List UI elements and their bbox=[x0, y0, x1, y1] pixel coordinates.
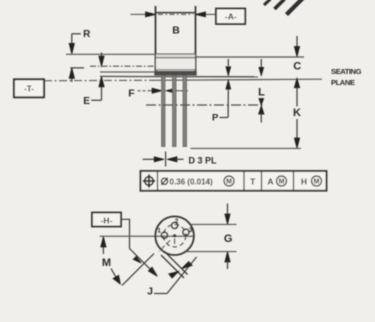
lead 3 circle bbox=[183, 229, 189, 235]
svg-text:L: L bbox=[258, 87, 265, 99]
can lower body tint bbox=[156, 58, 195, 69]
can body outline bbox=[155, 6, 196, 71]
svg-text:M: M bbox=[102, 257, 111, 269]
seating plane line right part bbox=[152, 79, 322, 80]
position symbol bbox=[143, 174, 155, 187]
svg-text:-T-: -T- bbox=[24, 85, 34, 94]
svg-text:SEATING: SEATING bbox=[331, 67, 362, 76]
dimension G bbox=[191, 223, 237, 225]
dimension J line bbox=[167, 257, 197, 294]
svg-text:0.36 (0.014): 0.36 (0.014) bbox=[170, 177, 213, 186]
ext line cap top bbox=[66, 53, 156, 55]
tab line 1 bbox=[161, 255, 184, 278]
J bracket bbox=[154, 293, 167, 295]
can base bar bbox=[155, 69, 196, 71]
diameter symbol bbox=[161, 178, 168, 185]
dash-dot line mid bbox=[90, 65, 156, 67]
lead 1 circle bbox=[161, 232, 167, 238]
svg-text:PLANE: PLANE bbox=[331, 78, 355, 87]
svg-text:1: 1 bbox=[157, 227, 161, 234]
M leader diagonal bbox=[111, 269, 116, 277]
svg-text:K: K bbox=[293, 107, 301, 119]
datum box -H- bbox=[92, 213, 121, 227]
svg-text:G: G bbox=[224, 233, 233, 245]
ext line can bottom bbox=[100, 71, 156, 73]
svg-text:C: C bbox=[293, 60, 301, 72]
svg-text:M: M bbox=[279, 179, 285, 186]
lead 2 bbox=[173, 76, 176, 147]
center mark bbox=[173, 234, 176, 237]
bottom view center line bbox=[100, 235, 194, 237]
svg-text:A: A bbox=[267, 176, 273, 186]
svg-text:F: F bbox=[128, 88, 135, 100]
svg-text:M: M bbox=[226, 179, 232, 186]
stray marks top right bbox=[264, 0, 303, 15]
svg-text:3: 3 bbox=[189, 227, 193, 234]
dimension L bbox=[260, 59, 262, 67]
dimension E bbox=[101, 53, 103, 60]
lead 2 circle bbox=[172, 222, 178, 228]
svg-text:P: P bbox=[212, 112, 219, 123]
svg-text:-A-: -A- bbox=[225, 12, 237, 22]
lead 1 bbox=[162, 76, 165, 147]
datum box -T- bbox=[14, 79, 44, 97]
seating plane line bbox=[100, 75, 258, 77]
dimension M bbox=[102, 244, 104, 254]
svg-text:J: J bbox=[147, 286, 153, 298]
modifier M circle 1 bbox=[224, 176, 234, 186]
outer circle (can bottom view) bbox=[155, 216, 194, 255]
modifier M circle 2 bbox=[277, 176, 287, 186]
dimension D bbox=[143, 158, 156, 160]
svg-text:-H-: -H- bbox=[101, 215, 113, 225]
svg-text:R: R bbox=[83, 29, 91, 40]
svg-text:B: B bbox=[172, 25, 180, 37]
dimension P bbox=[227, 59, 229, 66]
svg-text:T: T bbox=[250, 176, 256, 186]
dimension B bbox=[131, 13, 217, 15]
svg-text:H: H bbox=[301, 176, 307, 186]
svg-text:D 3 PL: D 3 PL bbox=[189, 156, 218, 166]
datum box -A- bbox=[216, 9, 245, 25]
ext line cap top right bbox=[196, 56, 305, 58]
can flange band bbox=[156, 54, 195, 57]
datum -T- dash line bbox=[44, 79, 152, 81]
dash-dot line through leads bbox=[146, 104, 263, 106]
modifier M circle 3 bbox=[312, 176, 322, 186]
tab line 2 bbox=[165, 252, 188, 275]
lead tips line bbox=[191, 147, 302, 149]
lead 3 bbox=[183, 76, 186, 147]
diagonal extension line bbox=[122, 254, 154, 286]
feature control frame bbox=[141, 171, 327, 191]
inner dashed circle bbox=[163, 225, 185, 247]
svg-text:M: M bbox=[314, 179, 320, 186]
svg-text:2: 2 bbox=[175, 218, 179, 225]
leader from -H- bbox=[121, 219, 152, 270]
dimension R bbox=[70, 34, 84, 82]
svg-text:E: E bbox=[83, 96, 90, 107]
dimension C and K shared line bbox=[296, 36, 298, 49]
